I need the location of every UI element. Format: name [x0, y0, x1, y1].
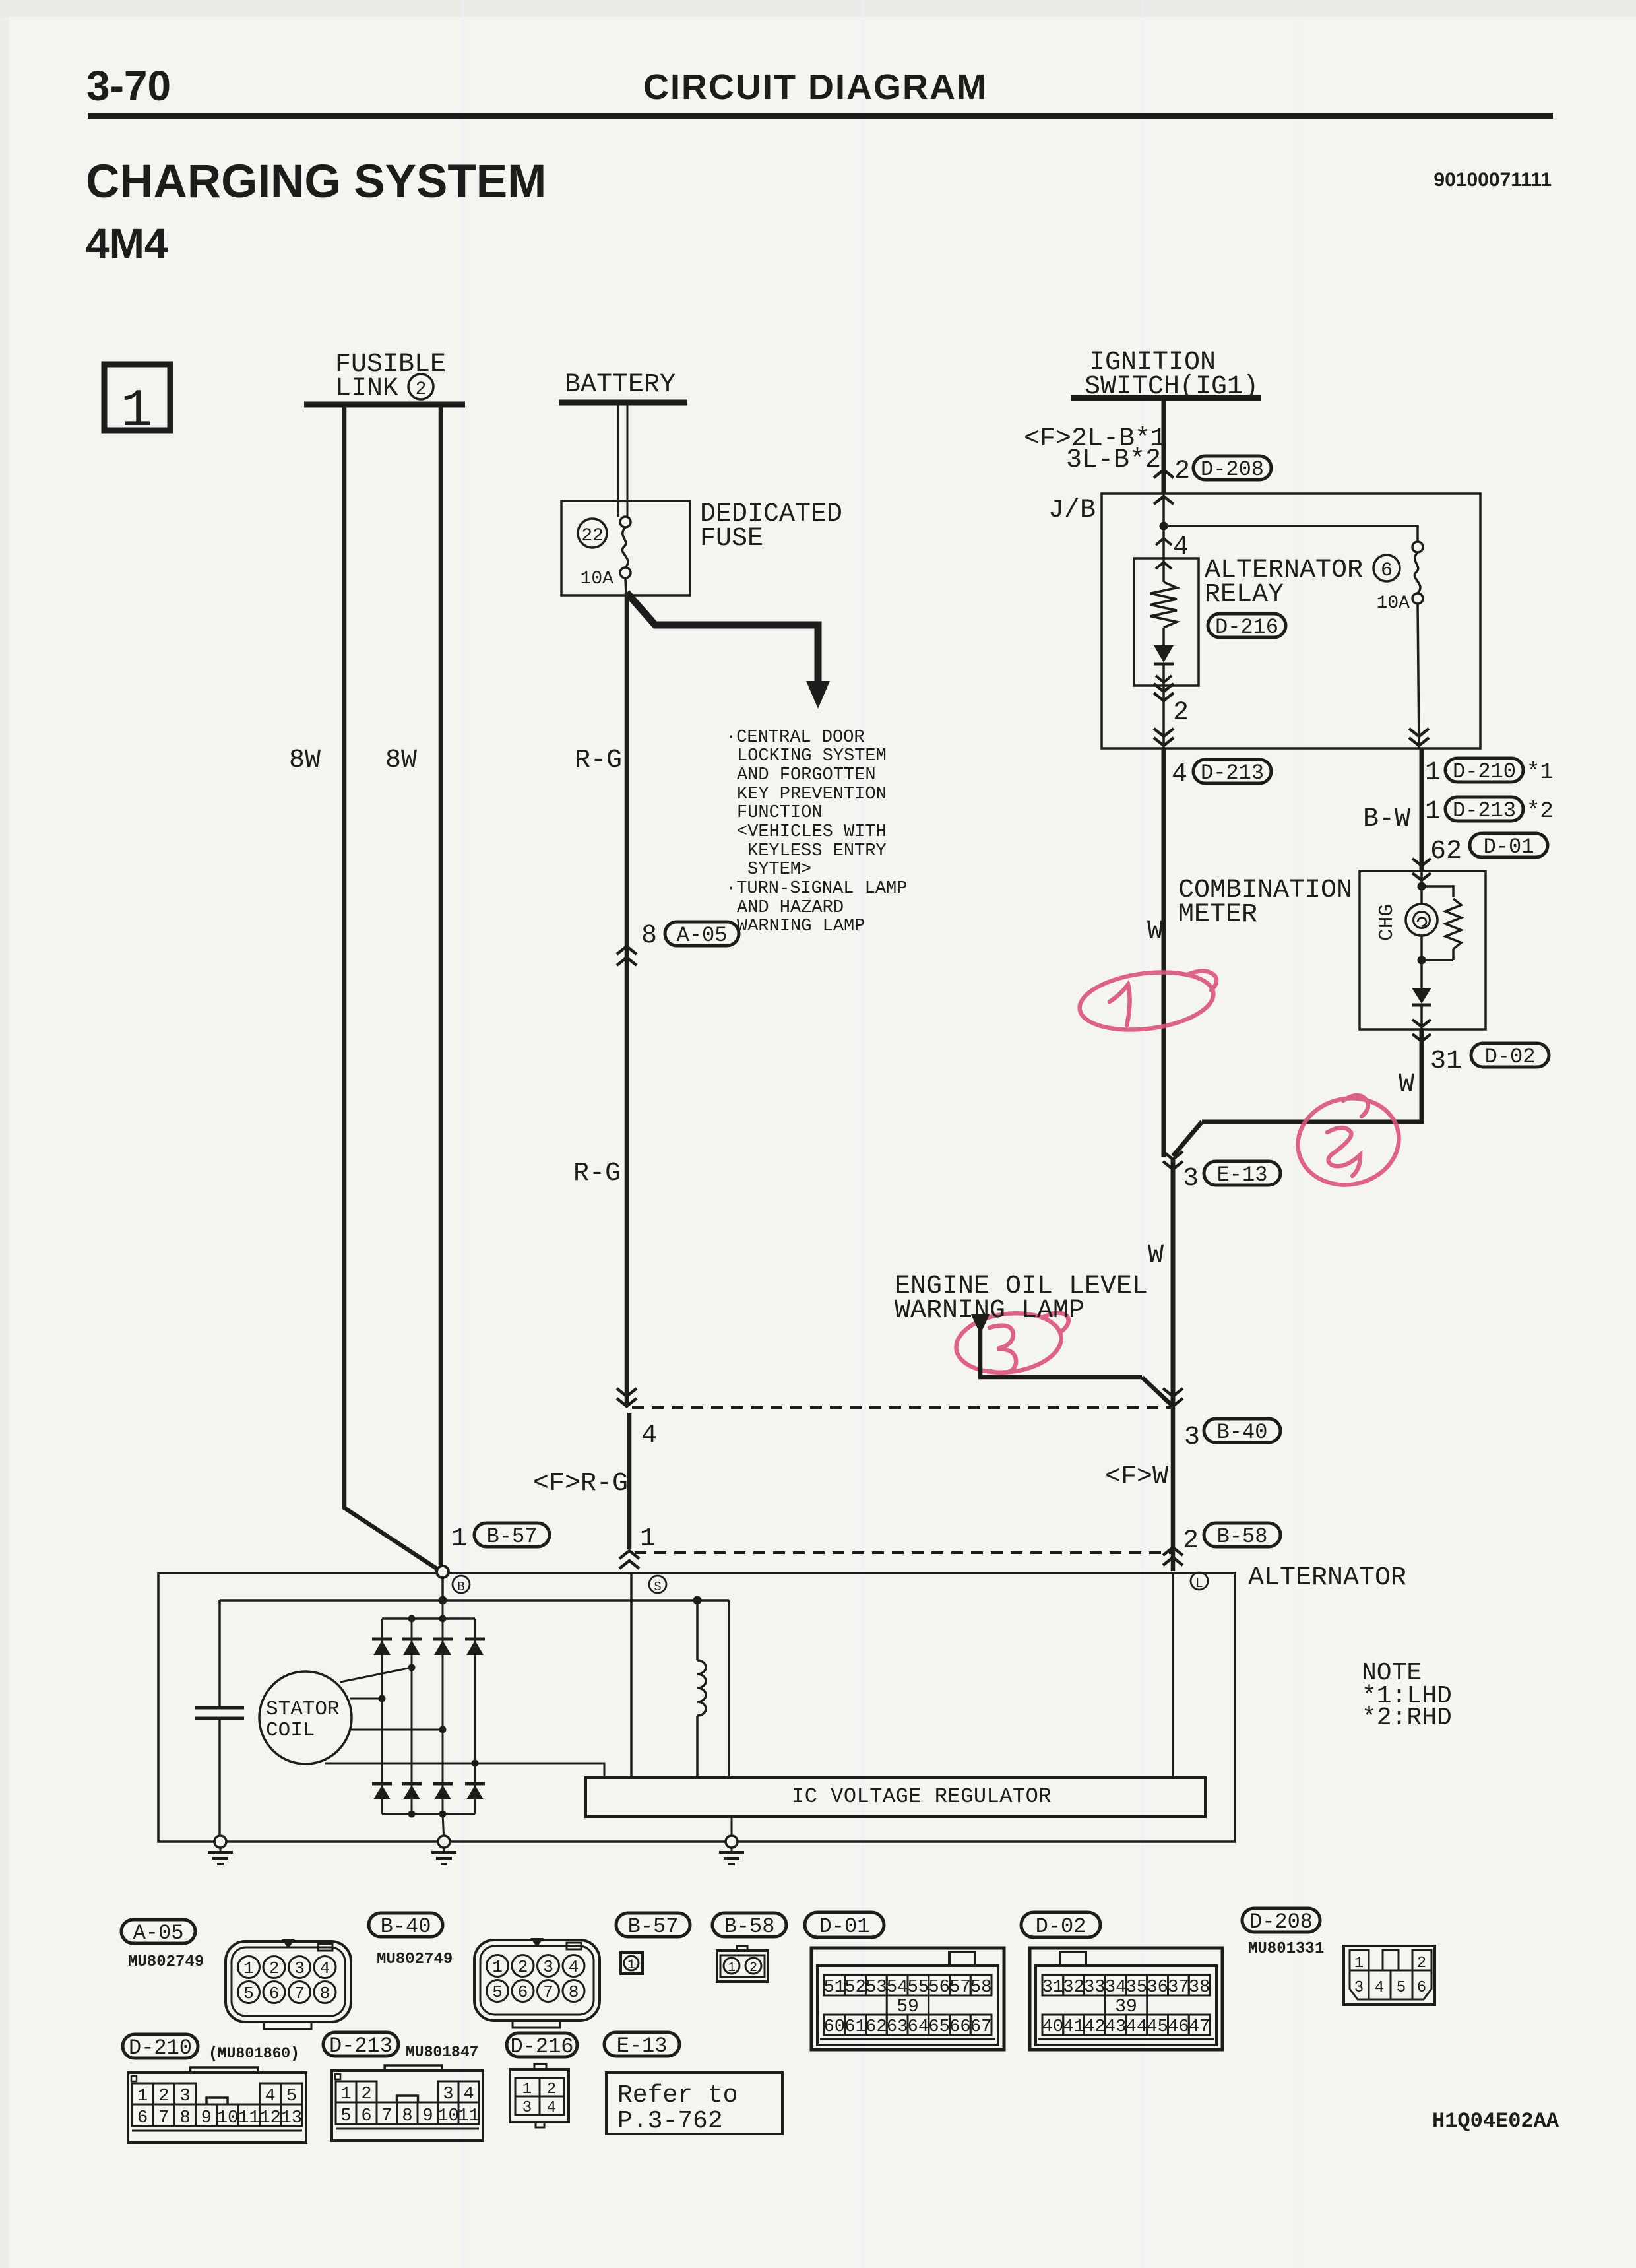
pin 2 label B-58	[1183, 1526, 1199, 1556]
svg-text:2: 2	[518, 1957, 528, 1977]
connector pill D-02 inline	[1471, 1043, 1549, 1069]
label CHG rotated	[1375, 904, 1399, 941]
svg-text:MU801847: MU801847	[406, 2044, 478, 2061]
svg-text:FUNCTION: FUNCTION	[737, 803, 823, 823]
wire J/B right branch down	[1418, 604, 1419, 748]
svg-text:8W: 8W	[289, 746, 321, 775]
svg-text:KEY PREVENTION: KEY PREVENTION	[737, 785, 887, 804]
label ALTERNATOR RELAY	[1205, 556, 1363, 610]
wire ignition to J/B	[1162, 398, 1166, 494]
diode D4 top	[465, 1639, 485, 1655]
wire W to alternator	[1171, 1406, 1176, 1571]
svg-text:A-05: A-05	[677, 923, 728, 948]
chevron at B-40 right	[1163, 1388, 1183, 1406]
svg-text:3: 3	[1184, 1423, 1200, 1452]
connector pill D-213 alt	[1445, 797, 1523, 823]
wire battery R-G	[625, 578, 629, 1549]
svg-text:W: W	[1399, 1070, 1414, 1099]
svg-text:CHG: CHG	[1375, 904, 1399, 941]
svg-text:4: 4	[1375, 1979, 1384, 1997]
junction node J/B	[1160, 522, 1168, 531]
svg-text:FUSE: FUSE	[700, 524, 763, 554]
connector drawing D-208	[1344, 1946, 1435, 2005]
connector pill D-208 top	[1193, 456, 1271, 482]
section title CHARGING SYSTEM	[86, 156, 546, 208]
label FUSIBLE LINK 2	[335, 350, 446, 404]
svg-text:9: 9	[422, 2106, 433, 2126]
part number MU801331	[1248, 1940, 1324, 1958]
svg-text:2: 2	[1174, 457, 1190, 486]
svg-text:D-213: D-213	[329, 2034, 393, 2058]
connector pill D-216	[507, 2033, 577, 2059]
wire label 8W left	[289, 746, 321, 775]
svg-text:31: 31	[1430, 1047, 1462, 1076]
svg-text:D-216: D-216	[510, 2034, 573, 2059]
svg-text:4: 4	[1172, 760, 1187, 789]
field coil L1	[697, 1660, 706, 1716]
svg-text:WARNING LAMP: WARNING LAMP	[895, 1296, 1085, 1326]
svg-text:31: 31	[1042, 1978, 1063, 1997]
svg-text:66: 66	[949, 2017, 970, 2037]
diode D1 top	[372, 1639, 392, 1655]
svg-text:60: 60	[824, 2017, 845, 2037]
svg-text:1: 1	[640, 1524, 656, 1554]
rectifier column 1	[381, 1619, 383, 1814]
svg-text:D-02: D-02	[1036, 1914, 1086, 1939]
svg-text:LOCKING SYSTEM: LOCKING SYSTEM	[737, 746, 887, 766]
pin 1 label D-213 alt	[1425, 797, 1441, 827]
svg-text:MU801331: MU801331	[1248, 1940, 1324, 1958]
battery bus bar	[559, 400, 687, 406]
svg-text:W: W	[1147, 917, 1163, 946]
svg-text:9: 9	[201, 2108, 212, 2128]
svg-text:8: 8	[641, 921, 657, 951]
svg-text:3-70: 3-70	[86, 62, 171, 110]
note ref *1	[1526, 760, 1554, 785]
svg-text:37: 37	[1168, 1978, 1189, 1997]
svg-text:54: 54	[887, 1978, 908, 1997]
ground G3	[719, 1836, 744, 1864]
relay coil resistor	[1150, 558, 1177, 645]
wire relay out to J/B bottom	[1162, 686, 1165, 748]
junction node bus B	[439, 1596, 447, 1605]
svg-text:AND HAZARD: AND HAZARD	[737, 898, 844, 918]
connector drawing D-213	[332, 2065, 483, 2141]
svg-text:P.3-762: P.3-762	[617, 2107, 723, 2135]
svg-text:IC VOLTAGE REGULATOR: IC VOLTAGE REGULATOR	[792, 1784, 1052, 1809]
svg-text:45: 45	[1147, 2017, 1168, 2037]
svg-text:D-210: D-210	[1453, 760, 1516, 784]
svg-text:6: 6	[361, 2106, 371, 2126]
connector pill D-02	[1021, 1912, 1100, 1939]
chevron relay pin 4	[1156, 538, 1172, 545]
svg-text:7: 7	[381, 2106, 392, 2126]
pin 3 label E-13	[1183, 1164, 1199, 1194]
wire J/B branch to fuse 6	[1164, 526, 1418, 542]
pin 3 label B-40	[1184, 1423, 1200, 1452]
junction node meter top	[1418, 882, 1426, 891]
svg-text:8: 8	[180, 2108, 191, 2128]
stator phase lead 2	[350, 1695, 386, 1702]
svg-text:B-W: B-W	[1363, 804, 1410, 834]
svg-text:6: 6	[1381, 560, 1393, 582]
connector pill D-01 inline	[1470, 833, 1548, 859]
svg-text:12: 12	[259, 2108, 280, 2128]
svg-text:BATTERY: BATTERY	[565, 370, 676, 400]
svg-text:64: 64	[908, 2017, 929, 2037]
svg-text:3L-B*2: 3L-B*2	[1066, 445, 1161, 475]
label IC VOLTAGE REGULATOR	[792, 1784, 1052, 1809]
header rule	[88, 113, 1553, 119]
svg-text:33: 33	[1084, 1978, 1105, 1997]
label ALTERNATOR	[1248, 1563, 1406, 1593]
oil lamp feed arrow	[971, 1314, 990, 1334]
stator phase lead 4	[325, 1760, 604, 1778]
svg-text:10: 10	[437, 2106, 458, 2126]
svg-text:B-40: B-40	[381, 1914, 431, 1939]
connector pill B-58 inline	[1204, 1523, 1280, 1549]
wire S internal	[630, 1573, 633, 1778]
wire J/B right out to meter	[1420, 748, 1424, 871]
chevrons meter exit	[1412, 1020, 1431, 1041]
part number MU801847	[406, 2044, 478, 2061]
diode D7 bottom	[433, 1784, 453, 1799]
relay circuit number 6	[1373, 555, 1400, 582]
connector pill D-213	[323, 2032, 398, 2058]
chevron at D-208	[1154, 470, 1174, 478]
svg-text:·CENTRAL DOOR: ·CENTRAL DOOR	[726, 728, 865, 748]
document number 90100071111	[1433, 169, 1552, 191]
svg-text:55: 55	[908, 1978, 929, 1997]
pin 4 label D-213	[1172, 760, 1187, 789]
wire label W lower	[1148, 1241, 1164, 1270]
svg-text:CHARGING SYSTEM: CHARGING SYSTEM	[86, 156, 546, 208]
pin 1 label D-210	[1425, 758, 1441, 788]
connector pill B-58	[712, 1913, 786, 1939]
wire L internal	[1172, 1573, 1174, 1778]
ground G2	[431, 1836, 456, 1864]
svg-text:(MU801860): (MU801860)	[208, 2045, 299, 2062]
wire label (F)2L-B*1	[1024, 424, 1166, 454]
svg-text:1: 1	[627, 1958, 635, 1973]
svg-text:11: 11	[458, 2106, 479, 2126]
pin 4 label relay	[1173, 533, 1189, 562]
junction node meter bottom	[1418, 956, 1454, 965]
svg-text:3: 3	[1183, 1164, 1199, 1194]
arrow to door-locking note	[627, 593, 830, 709]
chevron at E-13	[1163, 1151, 1183, 1169]
svg-text:CIRCUIT DIAGRAM: CIRCUIT DIAGRAM	[643, 67, 988, 107]
junction node bus field	[693, 1596, 702, 1605]
svg-text:3: 3	[543, 1957, 553, 1977]
pin 31 label D-02	[1430, 1047, 1462, 1076]
svg-text:Refer to: Refer to	[617, 2081, 738, 2110]
pin 2 label relay out	[1173, 698, 1189, 728]
rectifier column 2	[411, 1619, 413, 1814]
svg-text:2: 2	[1183, 1526, 1199, 1556]
svg-text:10: 10	[217, 2108, 238, 2128]
svg-text:MU802749: MU802749	[128, 1953, 204, 1971]
svg-text:D-208: D-208	[1249, 1910, 1313, 1934]
svg-text:STATOR: STATOR	[266, 1698, 340, 1721]
svg-text:4: 4	[547, 2099, 556, 2117]
label STATOR COIL	[266, 1698, 340, 1742]
wire inside J/B to relay	[1162, 494, 1165, 558]
svg-text:52: 52	[844, 1978, 865, 1997]
svg-text:D-213: D-213	[1201, 761, 1264, 785]
svg-text:38: 38	[1189, 1978, 1210, 1997]
svg-text:3: 3	[1354, 1979, 1364, 1997]
drawing number H1Q04E02AA	[1432, 2109, 1559, 2133]
svg-text:1: 1	[1425, 758, 1441, 788]
svg-text:53: 53	[865, 1978, 887, 1997]
connector pill E-13 inline	[1204, 1161, 1280, 1187]
combination meter box	[1360, 871, 1486, 1029]
svg-text:8: 8	[402, 2106, 412, 2126]
svg-text:90100071111: 90100071111	[1433, 169, 1552, 191]
chevron at B-58 right L	[1163, 1547, 1183, 1565]
terminal label S	[649, 1576, 666, 1594]
alternator relay box D-216	[1134, 558, 1199, 686]
handwritten mark 3 ellipse	[953, 1308, 1069, 1378]
svg-text:B: B	[457, 1580, 464, 1594]
svg-text:1: 1	[728, 1960, 736, 1976]
svg-text:2: 2	[416, 379, 427, 400]
svg-text:5: 5	[243, 1984, 254, 2003]
svg-text:MU802749: MU802749	[377, 1951, 453, 1968]
svg-text:2: 2	[269, 1959, 280, 1978]
svg-text:W: W	[1148, 1241, 1164, 1270]
svg-text:L: L	[1195, 1576, 1203, 1591]
wire fusible link left 8W	[344, 405, 441, 1571]
fusible link bus bar	[304, 402, 465, 408]
svg-text:44: 44	[1126, 2017, 1147, 2037]
label ENGINE OIL LEVEL WARNING LAMP	[895, 1272, 1148, 1326]
wire J/B left out down	[1162, 748, 1166, 1157]
diode D8 bottom	[465, 1784, 485, 1799]
svg-text:4: 4	[641, 1421, 657, 1450]
svg-text:J/B: J/B	[1048, 496, 1096, 525]
svg-text:32: 32	[1063, 1978, 1084, 1997]
connector pill A-05	[121, 1920, 195, 1945]
engine code 4M4	[86, 220, 168, 267]
wire label (F)W	[1105, 1462, 1168, 1492]
dedicated fuse box	[561, 501, 690, 595]
fuse circuit number 22	[578, 519, 607, 548]
svg-text:65: 65	[928, 2017, 949, 2037]
svg-text:E-13: E-13	[617, 2034, 668, 2058]
junction nodes rectifier bottom bus	[408, 1811, 447, 1818]
svg-text:57: 57	[949, 1978, 970, 1997]
svg-text:51: 51	[824, 1978, 845, 1997]
capacitor lead top	[218, 1600, 221, 1708]
connector pill B-57	[616, 1913, 690, 1939]
svg-text:67: 67	[970, 2017, 991, 2037]
svg-text:B-40: B-40	[1217, 1420, 1268, 1444]
svg-text:6: 6	[518, 1982, 528, 2002]
connector pill D-213 inline	[1193, 760, 1271, 785]
svg-text:AND FORGOTTEN: AND FORGOTTEN	[737, 765, 876, 785]
relay diode	[1154, 645, 1174, 686]
chevron at J/B top entry	[1154, 496, 1174, 504]
svg-text:1: 1	[492, 1957, 503, 1977]
svg-text:41: 41	[1063, 2017, 1084, 2037]
svg-text:RELAY: RELAY	[1205, 580, 1284, 610]
svg-text:8: 8	[569, 1982, 579, 2002]
label BATTERY	[565, 370, 676, 400]
connector drawing B-58	[717, 1946, 768, 1982]
svg-text:10A: 10A	[581, 569, 614, 589]
part number (MU801860)	[208, 2045, 299, 2062]
junction nodes rectifier top bus	[408, 1615, 447, 1623]
svg-text:<F>W: <F>W	[1105, 1462, 1168, 1492]
wire label W right	[1399, 1070, 1414, 1099]
svg-text:D-01: D-01	[1484, 835, 1534, 859]
fuse element F22	[620, 517, 631, 578]
connector drawing B-40	[474, 1938, 600, 2028]
svg-text:61: 61	[844, 2017, 865, 2037]
stator coil circle	[259, 1671, 352, 1764]
rectifier bottom bus	[382, 1813, 475, 1815]
svg-text:5: 5	[340, 2106, 351, 2126]
fuse rating 10A	[581, 569, 614, 589]
svg-text:4: 4	[569, 1957, 579, 1977]
part number MU802749 A-05	[128, 1953, 204, 1971]
svg-text:B-58: B-58	[724, 1914, 775, 1939]
terminal B junction circle	[437, 1566, 449, 1578]
svg-text:4M4: 4M4	[86, 220, 168, 267]
connector pill B-57 inline	[474, 1523, 550, 1549]
svg-text:R-G: R-G	[573, 1159, 621, 1188]
svg-text:8W: 8W	[385, 746, 417, 775]
svg-text:6: 6	[269, 1984, 280, 2003]
label J/B	[1048, 496, 1096, 525]
connector pill B-40	[369, 1913, 443, 1939]
alternator internal bus	[220, 1599, 729, 1602]
svg-text:A-05: A-05	[133, 1921, 184, 1945]
pin 62 label D-01	[1430, 837, 1462, 866]
svg-text:*1: *1	[1526, 760, 1554, 785]
connector drawing D-216	[510, 2064, 569, 2127]
svg-text:1: 1	[243, 1959, 254, 1978]
chevrons at A-05	[617, 946, 637, 965]
svg-text:22: 22	[581, 526, 604, 546]
svg-text:40: 40	[1042, 2017, 1063, 2037]
svg-text:43: 43	[1105, 2017, 1126, 2037]
svg-text:11: 11	[238, 2108, 259, 2128]
wire label 8W right	[385, 746, 417, 775]
figure number box 1	[104, 364, 170, 441]
svg-text:1: 1	[1354, 1955, 1364, 1972]
svg-text:42: 42	[1084, 2017, 1105, 2037]
connector pill D-210	[123, 2034, 198, 2060]
connector drawing A-05	[226, 1939, 351, 2029]
part number MU802749 B-40	[377, 1951, 453, 1968]
svg-text:S: S	[654, 1580, 661, 1594]
svg-text:<F>R-G: <F>R-G	[533, 1469, 628, 1499]
svg-text:R-G: R-G	[575, 746, 622, 775]
svg-text:H1Q04E02AA: H1Q04E02AA	[1432, 2109, 1559, 2133]
svg-text:2: 2	[1417, 1955, 1426, 1972]
connector pill D-208	[1242, 1908, 1320, 1934]
wire meter lamp bottom	[1420, 936, 1423, 988]
diode D3 top	[433, 1639, 453, 1655]
wire meter down and left	[1173, 1029, 1422, 1156]
note ref *2	[1526, 799, 1554, 824]
wire label R-G lower	[573, 1159, 621, 1188]
wire meter internal top	[1420, 871, 1423, 904]
svg-text:METER: METER	[1178, 900, 1257, 930]
wire oil lamp branch	[980, 1330, 1173, 1406]
rectifier top bus	[382, 1617, 475, 1620]
svg-text:63: 63	[887, 2017, 908, 2037]
capacitor C	[195, 1708, 244, 1718]
pin 1 label at B-58 left	[640, 1524, 656, 1554]
rectifier column 4	[474, 1619, 476, 1814]
svg-text:1: 1	[121, 381, 152, 441]
svg-text:10A: 10A	[1377, 593, 1410, 614]
alternator outer box	[158, 1573, 1235, 1842]
svg-text:*2: *2	[1526, 799, 1554, 824]
dashed line B-40	[632, 1406, 1173, 1409]
pin 4 label at B-40 left	[641, 1421, 657, 1450]
page header title CIRCUIT DIAGRAM	[643, 67, 988, 107]
wire label R-G upper	[575, 746, 622, 775]
fuse 6 rating 10A	[1377, 593, 1410, 614]
wire label B-W	[1363, 804, 1410, 834]
stator phase lead 1	[340, 1664, 416, 1683]
svg-text:47: 47	[1189, 2017, 1210, 2037]
connector pill D-210 inline	[1445, 758, 1523, 784]
svg-text:B-58: B-58	[1217, 1524, 1268, 1549]
wire battery double line	[618, 403, 627, 517]
svg-text:1: 1	[1425, 797, 1441, 827]
svg-text:<VEHICLES WITH: <VEHICLES WITH	[737, 822, 887, 842]
svg-text:B-57: B-57	[628, 1914, 679, 1939]
svg-text:46: 46	[1168, 2017, 1189, 2037]
svg-text:3: 3	[522, 2099, 532, 2117]
connector pill B-40 inline	[1204, 1419, 1280, 1444]
svg-text:35: 35	[1126, 1978, 1147, 1997]
pin 1 label B-57	[451, 1524, 467, 1554]
connector pill D-01	[805, 1912, 884, 1939]
svg-text:D-210: D-210	[129, 2036, 192, 2060]
chevron relay pin 2	[1154, 684, 1174, 701]
svg-text:8: 8	[320, 1984, 330, 2003]
page header text 3-70	[86, 62, 171, 110]
svg-text:6: 6	[137, 2108, 148, 2128]
wire W mid segment	[1171, 1157, 1176, 1406]
svg-text:WARNING LAMP: WARNING LAMP	[737, 917, 865, 936]
svg-text:LINK: LINK	[335, 374, 398, 404]
chevron at B-58 left S	[619, 1551, 639, 1569]
connector drawing D-01	[811, 1948, 1004, 2050]
chevron J/B bottom right	[1409, 729, 1429, 746]
pin 2 label D-208	[1174, 457, 1190, 486]
svg-text:·TURN-SIGNAL LAMP: ·TURN-SIGNAL LAMP	[726, 879, 907, 899]
connector drawing D-210	[128, 2067, 306, 2143]
diode D2 top	[402, 1639, 422, 1655]
svg-text:58: 58	[970, 1978, 991, 1997]
svg-text:KEYLESS ENTRY: KEYLESS ENTRY	[747, 841, 887, 861]
ground G1	[208, 1836, 233, 1864]
svg-text:13: 13	[281, 2108, 302, 2128]
charge lamp CHG	[1406, 904, 1437, 936]
svg-text:62: 62	[865, 2017, 887, 2037]
svg-text:5: 5	[492, 1982, 503, 2002]
label IGNITION SWITCH(IG1)	[1085, 348, 1259, 402]
connector pill D-216 inline	[1208, 614, 1286, 639]
